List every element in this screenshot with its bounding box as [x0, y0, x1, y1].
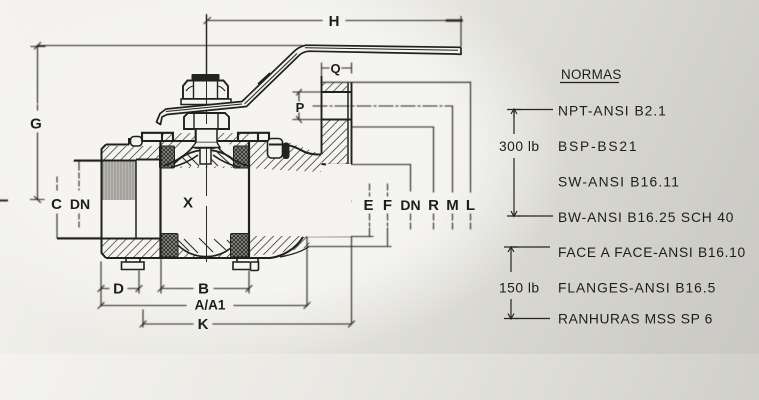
M column line	[452, 106, 454, 229]
thread insert (left end)	[102, 161, 137, 201]
body joint line right	[248, 141, 250, 258]
body bottom edge	[106, 237, 303, 258]
body hatching: bottom center band	[161, 236, 249, 257]
svg-text:K: K	[198, 316, 209, 333]
dimension G line	[31, 43, 303, 203]
svg-text:B: B	[198, 281, 209, 298]
reference line to R	[352, 126, 434, 128]
svg-text:C: C	[51, 196, 62, 213]
bonnet top blocks	[142, 133, 269, 141]
stem tang	[200, 148, 211, 164]
body joint line left	[159, 141, 161, 258]
svg-text:H: H	[329, 13, 340, 30]
seat ring lower-right (dark)	[231, 234, 249, 258]
dimension A/A1 line	[98, 199, 310, 309]
svg-text:RANHURAS MSS SP 6: RANHURAS MSS SP 6	[558, 312, 713, 327]
dimension C line	[57, 177, 101, 238]
svg-text:R: R	[428, 197, 439, 214]
L column line	[470, 82, 472, 229]
svg-text:M: M	[446, 197, 459, 214]
svg-text:BSP-BS21: BSP-BS21	[558, 139, 638, 154]
body hatching: left cap top band	[102, 146, 160, 160]
body hatching: lower neck wedge	[249, 236, 311, 256]
300 lb bracket	[507, 109, 553, 217]
svg-text:G: G	[30, 116, 42, 133]
dimension H line	[204, 15, 462, 75]
seat ring upper-right (dark)	[234, 146, 249, 168]
reference line to E (pipe bottom)	[303, 236, 370, 238]
scan mark at left edge	[0, 200, 7, 202]
gland curves around stem	[163, 143, 248, 168]
ball top dome	[172, 150, 240, 166]
R column line	[433, 127, 435, 229]
svg-text:NORMAS: NORMAS	[561, 67, 622, 82]
150 lb bracket	[504, 247, 550, 319]
dimension Q line	[322, 63, 352, 76]
F column line	[384, 184, 391, 247]
svg-text:NPT-ANSI B2.1: NPT-ANSI B2.1	[558, 104, 667, 119]
right joint bolt tab	[268, 139, 283, 159]
left cap bolt tab	[131, 137, 143, 147]
svg-text:300 lb: 300 lb	[499, 139, 540, 154]
lower neck second curve	[280, 247, 309, 258]
packing nut	[196, 129, 217, 143]
DN-right column line	[410, 165, 412, 230]
reference line to L (flange top)	[322, 81, 471, 83]
body hatching: bonnet band	[161, 133, 249, 168]
svg-text:L: L	[466, 197, 475, 214]
svg-text:FACE A FACE-ANSI B16.10: FACE A FACE-ANSI B16.10	[558, 245, 746, 260]
dimension K line	[140, 237, 355, 328]
ball top dome hatch strokes	[181, 149, 237, 166]
stem	[196, 124, 215, 148]
svg-text:FLANGES-ANSI B16.5: FLANGES-ANSI B16.5	[558, 281, 716, 296]
body top edge right + neck curve	[269, 145, 321, 155]
ball bottom cap	[171, 235, 241, 257]
bottom tab right	[233, 258, 259, 271]
body hatching: upper neck wedge	[249, 140, 321, 172]
svg-text:SW-ANSI B16.11: SW-ANSI B16.11	[558, 175, 680, 190]
dimension DN-left line	[74, 161, 101, 229]
svg-text:E: E	[363, 197, 373, 214]
dimension P line	[293, 90, 322, 123]
bottom hex nut	[184, 113, 229, 129]
flange hatching top band	[322, 82, 348, 92]
svg-text:150 lb: 150 lb	[499, 281, 540, 296]
E column line	[366, 184, 373, 237]
gland white volcano region around stem	[168, 140, 243, 167]
top hex nut	[183, 81, 228, 100]
svg-text:A/A1: A/A1	[195, 298, 226, 313]
bottom tab left	[122, 258, 145, 270]
washer under top nut	[181, 99, 231, 105]
svg-text:D: D	[113, 281, 124, 298]
svg-text:DN: DN	[70, 196, 90, 212]
reference line to F (socket bottom)	[309, 246, 389, 248]
NORMAS panel text	[499, 67, 746, 327]
dimension labels	[30, 13, 475, 333]
svg-text:F: F	[383, 197, 392, 214]
stem centerline	[206, 15, 208, 263]
dimension B line	[158, 259, 252, 293]
svg-text:BW-ANSI B16.25 SCH 40: BW-ANSI B16.25 SCH 40	[558, 210, 734, 225]
centerline X (dash-dot main axis)	[112, 200, 352, 202]
right joint bolt (dark)	[283, 143, 290, 160]
dimension D line	[98, 271, 142, 293]
handle inner line	[166, 48, 458, 112]
svg-text:DN: DN	[400, 197, 420, 213]
handle edge artifact dash	[258, 73, 270, 84]
flange hatching lower band	[322, 120, 348, 165]
stem cap (dark strip)	[192, 74, 220, 80]
flange outline	[322, 76, 352, 165]
bolt-circle centerline (dash-dot)	[313, 105, 453, 107]
ball bottom cap hatch strokes	[177, 238, 235, 253]
seat ring lower-left (dark)	[161, 234, 179, 258]
reference line to DN-right (bore)	[326, 164, 411, 166]
svg-text:Q: Q	[330, 61, 340, 76]
svg-text:P: P	[296, 100, 305, 115]
seat ring upper-left (dark)	[160, 146, 175, 168]
svg-text:X: X	[183, 195, 193, 212]
left end socket box below threads	[102, 200, 137, 239]
valve body bore (white band)	[102, 161, 351, 238]
left cap outline	[57, 138, 161, 258]
body hatching: left cap bottom band	[102, 239, 160, 257]
handle (lever)	[157, 45, 462, 124]
